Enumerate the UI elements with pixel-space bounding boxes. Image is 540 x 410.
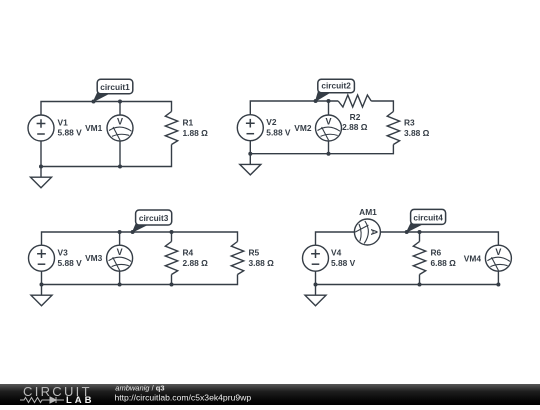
circuit 3 wires: bottom rail <box>42 271 238 284</box>
svg-text:circuit4: circuit4 <box>413 212 443 222</box>
circuit 3 wires: top rail + left/right branches <box>42 232 238 245</box>
node circuit3 net <box>131 230 135 234</box>
ground circuit 2 <box>240 154 261 175</box>
wire VM1 bottom stub <box>119 141 121 167</box>
node R4 bottom junction <box>170 283 174 287</box>
node VM4 bottom junction <box>496 283 500 287</box>
svg-text:1.88 Ω: 1.88 Ω <box>183 128 209 138</box>
node R4 top junction <box>170 230 174 234</box>
svg-text:R3: R3 <box>404 118 415 128</box>
node label callout "circuit1" <box>94 79 133 101</box>
circuit 1 wires: top rail <box>41 102 172 115</box>
svg-text:5.88 V: 5.88 V <box>331 258 356 268</box>
node label callout "circuit4" <box>407 209 446 232</box>
resistor R4 <box>165 242 177 275</box>
wire VM3 stubs <box>119 232 121 285</box>
svg-text:V3: V3 <box>58 248 69 258</box>
svg-text:V: V <box>117 117 123 127</box>
node circuit4 net <box>405 230 409 234</box>
ground circuit 1 <box>31 167 52 188</box>
svg-text:5.88 V: 5.88 V <box>58 128 83 138</box>
logo diode <box>46 397 64 403</box>
svg-text:V1: V1 <box>58 118 69 128</box>
svg-text:V: V <box>495 247 501 257</box>
voltage source V1 <box>28 115 54 141</box>
logo resistor zigzag <box>20 398 46 403</box>
svg-text:circuit3: circuit3 <box>139 213 169 223</box>
svg-text:3.88 Ω: 3.88 Ω <box>404 128 430 138</box>
circuit 4 wires: top rail right (AM1 to VM4) <box>380 232 498 246</box>
svg-text:5.88 V: 5.88 V <box>58 258 83 268</box>
node VM3 bottom junction <box>118 283 122 287</box>
node ground junction c1 <box>39 165 43 169</box>
node label callout "circuit2" <box>316 79 355 101</box>
ground circuit 4 <box>305 285 326 306</box>
resistor R3 <box>387 112 399 145</box>
svg-text:R4: R4 <box>183 248 194 258</box>
voltmeter VM3 <box>107 245 133 271</box>
voltage source V3 <box>29 245 55 271</box>
svg-text:V2: V2 <box>266 117 277 127</box>
ammeter AM1 <box>354 219 380 245</box>
node R6 bottom junction <box>418 283 422 287</box>
resistor R6 <box>413 242 425 275</box>
voltmeter VM4 <box>485 245 511 271</box>
svg-text:A: A <box>369 229 379 236</box>
voltage source V2 <box>237 115 263 141</box>
svg-text:V4: V4 <box>331 248 342 258</box>
svg-text:V: V <box>117 247 123 257</box>
svg-text:VM2: VM2 <box>294 123 312 133</box>
wire R4 stubs <box>171 232 173 285</box>
svg-text:http://circuitlab.com/c5x3ek4p: http://circuitlab.com/c5x3ek4pru9wp <box>115 392 252 402</box>
wire R6 stubs <box>419 232 421 285</box>
circuit 2 wires: bottom rail <box>250 141 393 154</box>
node VM1 top junction <box>118 100 122 104</box>
wire VM1 top stub <box>119 102 121 116</box>
node R6 top junction <box>418 230 422 234</box>
node ground junction c2 <box>248 152 252 156</box>
resistor R2 (horizontal) <box>338 95 371 107</box>
svg-text:VM4: VM4 <box>464 254 482 264</box>
svg-text:2.88 Ω: 2.88 Ω <box>183 258 209 268</box>
node ground junction c4 <box>314 283 318 287</box>
ground circuit 3 <box>31 285 52 306</box>
node VM2 bottom junction <box>327 152 331 156</box>
svg-text:VM1: VM1 <box>85 123 103 133</box>
svg-text:R5: R5 <box>249 248 260 258</box>
svg-text:VM3: VM3 <box>85 253 103 263</box>
svg-text:5.88 V: 5.88 V <box>266 127 291 137</box>
node circuit2 net <box>314 99 318 103</box>
svg-text:3.88 Ω: 3.88 Ω <box>249 258 275 268</box>
svg-text:AM1: AM1 <box>359 207 377 217</box>
svg-text:R1: R1 <box>183 118 194 128</box>
resistor R5 <box>231 242 243 275</box>
svg-text:circuit1: circuit1 <box>100 82 130 92</box>
svg-text:2.88 Ω: 2.88 Ω <box>342 122 368 132</box>
svg-text:6.88 Ω: 6.88 Ω <box>431 258 457 268</box>
voltmeter VM2 <box>316 115 342 141</box>
node circuit1 net <box>92 100 96 104</box>
node VM1 bottom junction <box>118 165 122 169</box>
circuit 1 wires: bottom rail <box>41 141 172 166</box>
svg-text:LAB: LAB <box>66 395 95 405</box>
node VM3 top junction <box>118 230 122 234</box>
voltmeter VM1 <box>107 115 133 141</box>
circuit 2 wires: top rail right + right branch <box>371 101 393 112</box>
svg-text:R2: R2 <box>350 112 361 122</box>
circuit 4 wires: bottom rail <box>316 271 499 285</box>
resistor R1 <box>165 112 177 145</box>
circuit 4 wires: top rail left (to AM1) <box>316 232 355 245</box>
svg-text:circuit2: circuit2 <box>321 81 351 91</box>
node VM2 top junction <box>327 99 331 103</box>
node ground junction c3 <box>40 283 44 287</box>
circuit 2 wires: top rail left <box>250 101 338 115</box>
svg-text:V: V <box>325 117 331 127</box>
voltage source V4 <box>303 245 329 271</box>
wire VM2 bottom stub <box>328 141 330 154</box>
svg-text:R6: R6 <box>431 248 442 258</box>
node label callout "circuit3" <box>133 210 172 232</box>
wire VM2 top stub <box>328 101 330 115</box>
